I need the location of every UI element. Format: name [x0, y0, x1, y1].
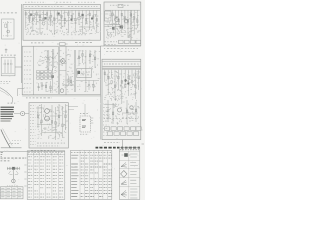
resistor R202	[118, 10, 119, 24]
symbol legend row rules	[119, 151, 140, 186]
terminal strip row 3	[37, 77, 52, 79]
resistor R204	[124, 10, 125, 29]
op-amp U1 module outline	[80, 116, 91, 132]
diode D202 dark mark	[112, 27, 115, 30]
resistor list header rule	[27, 154, 65, 156]
legend list line 7	[1, 120, 11, 122]
corner tick	[1, 153, 3, 157]
resistor R120	[93, 10, 94, 27]
capacitor C320	[88, 81, 90, 91]
wire: interstage link 2	[58, 20, 70, 22]
transistor Q502	[45, 116, 50, 121]
resistor R400	[104, 70, 105, 82]
legend title	[8, 102, 17, 104]
pin label row 1 of U1	[82, 119, 86, 120]
wire: bus 3	[102, 69, 140, 71]
capacitor C420	[107, 100, 109, 122]
resistor R114	[71, 10, 72, 22]
resistor R420	[112, 103, 114, 124]
wire: shield link	[62, 84, 74, 86]
table: capacitor parts list frame	[71, 150, 112, 199]
diode dark marks in IF box	[30, 13, 93, 21]
wire: bus 1	[102, 66, 140, 68]
resistor R503	[55, 107, 56, 140]
diode D201 dark mark	[120, 26, 123, 29]
wire: interstage link 3	[79, 26, 95, 28]
resistor R200	[112, 10, 113, 26]
resistor R344	[93, 81, 94, 92]
resistor R341	[50, 81, 51, 93]
value labels chroma	[37, 143, 65, 146]
legend list line 5	[1, 115, 14, 117]
value labels mid	[104, 118, 137, 120]
wire: B+ bus lower	[24, 9, 100, 11]
resistor R331	[94, 50, 96, 68]
symbol: wire fan 2	[121, 180, 127, 184]
transistor Q106	[42, 10, 45, 25]
legend list line 3	[1, 111, 15, 113]
junction dot D402	[127, 82, 129, 84]
wire bundle	[58, 47, 59, 94]
resistor R407	[128, 70, 129, 96]
legend list line 4	[1, 113, 14, 115]
wire: B+ bus upper	[24, 8, 100, 10]
wire: detector out	[76, 80, 99, 82]
resistor R404	[118, 70, 119, 88]
wire: main horizontal divider right segment	[101, 45, 142, 47]
video detector module	[77, 69, 92, 78]
resistor R109	[54, 10, 55, 35]
resistor R336	[70, 76, 71, 86]
wire: legend pointer	[14, 113, 20, 115]
capacitor list columns	[80, 150, 108, 199]
resistor R203	[121, 10, 122, 33]
resistor R205	[127, 10, 128, 38]
fuse block row 1	[105, 127, 142, 131]
row labels left of list	[24, 158, 26, 186]
symbol: mounting pad dark	[122, 153, 131, 157]
label under PS	[1, 81, 11, 83]
resistor list header	[28, 152, 63, 154]
symbol legend divider	[128, 151, 130, 199]
flyback core hatches	[7, 167, 20, 170]
label power supply	[1, 54, 16, 56]
junction dot D401	[124, 79, 126, 81]
texture video box	[37, 49, 75, 93]
block: video-sync section	[22, 46, 100, 95]
resistor list columns	[34, 151, 59, 200]
table: resistor parts list frame	[27, 151, 65, 200]
antenna stub	[5, 49, 8, 54]
voltage chart rows	[0, 190, 23, 196]
caption under video box	[26, 97, 52, 99]
node labels above tuner box	[25, 1, 95, 3]
transistor Q1	[7, 30, 10, 33]
transformer T1 windings	[4, 60, 12, 74]
wire: inner divider	[33, 46, 35, 95]
transistor Q116	[78, 10, 81, 25]
resistor R207	[134, 10, 135, 34]
resistor R402	[111, 70, 112, 84]
wire: chroma link d	[42, 132, 62, 134]
tuner module box	[105, 11, 111, 21]
capacitor C112	[64, 10, 66, 27]
caption top of audio box	[110, 4, 129, 6]
terminal strip row 2	[37, 74, 52, 76]
capacitor C520	[44, 128, 46, 129]
symbol legend header	[120, 149, 139, 151]
symbol legend text	[130, 154, 138, 198]
capacitor C118	[85, 10, 87, 24]
wire: audio bus	[105, 9, 140, 11]
CRT funnel inner line	[0, 90, 9, 95]
transistor Q402	[130, 106, 133, 109]
resistor R206	[130, 10, 131, 25]
label above U1	[80, 113, 88, 115]
legend list line 1	[1, 106, 15, 108]
resistor R343	[82, 50, 83, 63]
resistor R101	[25, 10, 26, 28]
wire: chroma to U1 b	[68, 109, 74, 111]
resistor list row text	[28, 157, 63, 197]
texture audio box	[106, 12, 140, 39]
resistor R505	[62, 106, 63, 138]
block: deflection section	[102, 59, 141, 139]
transistor Q401	[118, 108, 122, 112]
block: audio output section	[104, 2, 141, 46]
resistor R401	[108, 70, 109, 95]
resistor R506	[65, 104, 66, 130]
flyback side ticks	[9, 171, 19, 175]
wire: notes rule	[0, 150, 65, 152]
waveform ramp curve	[1, 130, 10, 148]
block: chroma section	[29, 103, 68, 148]
wire: long vertical feed line	[20, 4, 22, 83]
resistor R501	[41, 104, 42, 136]
caption row inside IF box	[26, 6, 98, 8]
flyback core center dot	[12, 167, 15, 170]
caption under IF box	[31, 42, 92, 44]
resistor R110	[57, 10, 58, 23]
resistor R403	[114, 70, 115, 100]
wire: double link left	[105, 25, 121, 27]
waveform baseline	[1, 147, 22, 149]
resistor R1	[5, 24, 7, 27]
symbol: wire fan 1	[121, 163, 127, 168]
resistor R409	[135, 70, 136, 99]
legend list line 2	[1, 109, 14, 111]
texture deflection upper	[104, 71, 140, 101]
capacitor C105	[39, 10, 41, 34]
texture deflection mid	[104, 102, 140, 125]
wire: interstage link 1	[34, 13, 46, 15]
resistor R342	[78, 50, 79, 66]
resistor R504	[58, 104, 59, 126]
texture chroma box	[37, 105, 68, 141]
labels audio box bottom	[105, 42, 118, 45]
capacitor C102	[28, 10, 30, 22]
peaking coil marks	[44, 56, 57, 68]
resistor R121	[96, 10, 97, 33]
wire: mid link b	[122, 112, 138, 114]
wire: AGC lead	[7, 21, 9, 37]
wire: strong vertical rail	[130, 10, 132, 40]
resistor R422	[135, 102, 137, 122]
symbol: connector diamond	[121, 171, 127, 178]
texture shield area	[77, 51, 101, 92]
resistor R111	[61, 10, 62, 29]
output block row	[119, 40, 141, 43]
caption under deflection box	[104, 142, 120, 144]
wire pair sync in	[52, 49, 54, 90]
wire: jack to chroma	[25, 113, 29, 115]
CRT socket	[12, 179, 16, 183]
corner bracket	[18, 89, 24, 96]
wire: video box bottom second line	[22, 95, 100, 97]
wire: mid link a	[104, 104, 117, 106]
AGC labels	[3, 23, 12, 36]
pin list left edge	[30, 106, 36, 145]
wire: U1 feed	[84, 104, 86, 116]
shield partition	[74, 50, 86, 92]
wire pair video in	[47, 50, 49, 70]
pin labels left cell	[24, 52, 32, 92]
wire: link under diamond	[59, 69, 66, 71]
symbol: wire fan 3	[121, 190, 127, 197]
wire: chroma link c	[38, 124, 52, 126]
detector labels	[81, 72, 91, 75]
terminal strip row 1	[37, 71, 52, 73]
value label texture IF box	[25, 12, 99, 35]
capacitor C201 block	[118, 5, 123, 8]
transistor Q202	[124, 19, 128, 23]
wire: chroma to U1 a	[68, 106, 78, 108]
capacitor list row text	[71, 155, 112, 196]
pin stubs right of U1	[91, 118, 94, 123]
connector diamond J3	[60, 58, 66, 64]
resistor R103	[32, 10, 33, 32]
resistor R500	[37, 106, 38, 128]
legend list line 6	[1, 118, 13, 120]
wire: right rail	[100, 95, 102, 140]
resistor R104	[36, 10, 37, 25]
waveform annotation	[9, 141, 21, 144]
resistor R421	[126, 100, 128, 124]
resistor R119	[89, 10, 90, 30]
capacitor C310	[41, 82, 43, 90]
capacitor C315	[37, 83, 39, 91]
resistor R117	[82, 10, 83, 34]
wire: vertical rail right of diamond	[65, 46, 67, 95]
wire: PS rail	[2, 73, 15, 75]
waveform ramp faint	[3, 129, 13, 146]
fuse block row 2	[108, 132, 139, 136]
wire: second top line	[102, 60, 141, 62]
table: voltage chart frame	[0, 187, 23, 199]
note text top left	[1, 12, 17, 14]
resistor R330	[89, 50, 91, 64]
jack J1	[21, 112, 25, 116]
wire: drop to parts list	[121, 140, 123, 151]
caption under chroma box	[31, 149, 55, 151]
notes line 1	[1, 157, 27, 159]
block: power transformer box	[1, 57, 15, 76]
transistor Q201	[115, 18, 119, 22]
capacitor C115	[75, 10, 77, 31]
caption under U1	[80, 133, 89, 135]
value labels bottom of IF box	[26, 33, 86, 36]
socket labels	[7, 185, 19, 187]
voltage chart columns	[6, 187, 17, 199]
resistor R201	[115, 10, 116, 36]
capacitor list header	[71, 151, 111, 153]
wire: chroma link b	[50, 115, 60, 117]
pin row deflection	[104, 63, 139, 65]
notes line 2	[1, 160, 10, 162]
coil L1 between sections	[57, 43, 68, 46]
transistor Q304	[60, 89, 64, 93]
labels below divider right	[104, 49, 138, 52]
transistor Q501	[45, 109, 50, 114]
pin list right rail	[103, 104, 109, 136]
paper background	[0, 0, 145, 200]
block: AGC detail box	[2, 19, 14, 39]
junction blob	[51, 75, 53, 78]
resistor R340	[45, 82, 46, 92]
resistor R408	[131, 70, 132, 84]
resistor R405	[121, 70, 122, 104]
wire: link from PS	[15, 66, 22, 68]
wire: bus 2	[102, 67, 140, 69]
resistor R406	[125, 70, 126, 88]
pin label row 2 of U1	[82, 126, 86, 127]
wire: chroma link a	[36, 107, 45, 109]
block: tuner/IF amplifier section	[23, 5, 101, 41]
voltage chart cell text	[1, 188, 21, 196]
margin tick right	[142, 143, 145, 145]
resistor R107	[46, 10, 47, 30]
resistor R502	[51, 105, 52, 132]
CRT funnel curve	[0, 88, 13, 104]
resistor R208	[137, 10, 138, 28]
wire: flyback lead	[12, 168, 14, 179]
resistor R113	[68, 10, 69, 33]
paper scan noise	[1, 1, 142, 198]
parts list main header band	[96, 147, 141, 149]
resistor R335	[68, 76, 69, 86]
resistor R410	[138, 70, 139, 90]
capacitor C108	[50, 10, 52, 26]
table: symbol legend frame	[119, 148, 140, 200]
